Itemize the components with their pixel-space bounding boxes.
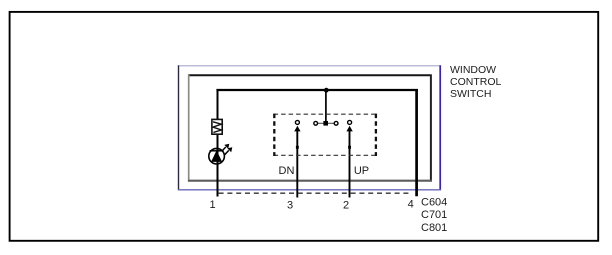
svg-text:DN: DN — [279, 165, 295, 177]
svg-text:3: 3 — [287, 199, 293, 211]
svg-text:1: 1 — [209, 199, 215, 211]
svg-text:C801: C801 — [421, 222, 447, 234]
svg-text:UP: UP — [354, 165, 369, 177]
svg-text:4: 4 — [408, 199, 414, 211]
svg-text:2: 2 — [343, 199, 349, 211]
svg-text:CONTROL: CONTROL — [450, 76, 501, 88]
svg-text:C604: C604 — [421, 196, 447, 208]
svg-text:WINDOW: WINDOW — [450, 64, 496, 76]
svg-text:C701: C701 — [421, 209, 447, 221]
svg-text:SWITCH: SWITCH — [450, 88, 491, 100]
